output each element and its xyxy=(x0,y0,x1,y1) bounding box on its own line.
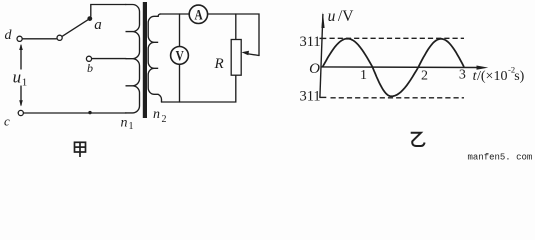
svg-text:V: V xyxy=(176,47,185,64)
svg-text:3: 3 xyxy=(459,68,466,83)
svg-text:1: 1 xyxy=(360,68,367,83)
svg-text:a: a xyxy=(94,17,102,33)
svg-text:1: 1 xyxy=(22,77,28,89)
svg-text:b: b xyxy=(87,61,93,75)
svg-text:1: 1 xyxy=(129,121,134,132)
svg-text:u: u xyxy=(328,8,336,25)
svg-text:d: d xyxy=(5,28,13,43)
svg-text:2: 2 xyxy=(162,114,167,125)
svg-text:A: A xyxy=(195,6,204,23)
svg-text:manfen5. com: manfen5. com xyxy=(468,152,533,161)
svg-text:311: 311 xyxy=(299,89,320,105)
svg-text:n: n xyxy=(121,115,128,130)
svg-text:O: O xyxy=(309,61,320,77)
svg-text:/(×10: /(×10 xyxy=(477,69,507,84)
svg-text:c: c xyxy=(4,113,10,128)
svg-text:2: 2 xyxy=(421,69,428,84)
svg-text:u: u xyxy=(13,67,22,86)
svg-text:/V: /V xyxy=(338,8,354,25)
svg-text:s): s) xyxy=(514,69,524,84)
svg-text:R: R xyxy=(214,56,224,72)
svg-text:n: n xyxy=(153,107,160,122)
svg-text:311: 311 xyxy=(299,34,320,50)
